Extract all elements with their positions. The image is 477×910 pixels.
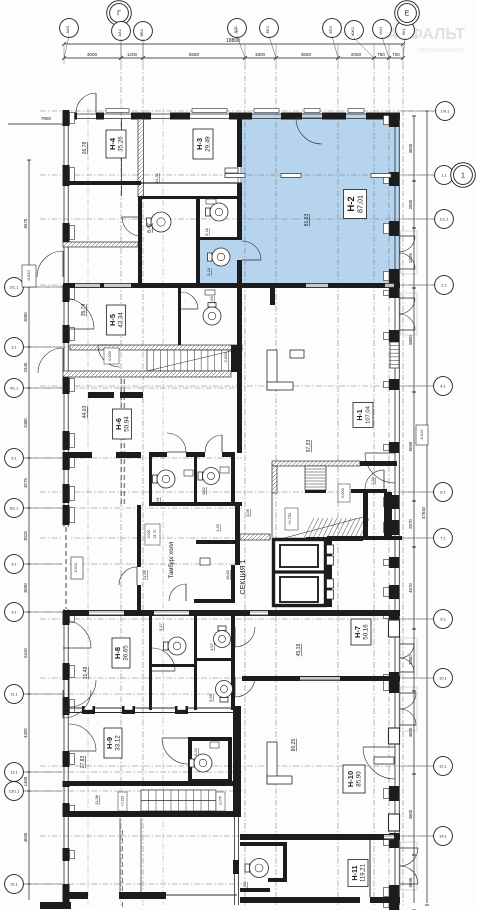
svg-text:2570: 2570: [408, 519, 413, 529]
svg-text:9.1: 9.1: [440, 617, 446, 622]
svg-text:3600: 3600: [408, 143, 413, 153]
svg-text:4.1: 4.1: [440, 384, 446, 389]
svg-text:35,74: 35,74: [81, 304, 87, 317]
svg-text:2940: 2940: [23, 362, 28, 372]
svg-text:КК1: КК1: [401, 27, 406, 35]
svg-text:5,18: 5,18: [205, 228, 209, 235]
svg-text:2600: 2600: [408, 199, 413, 209]
svg-text:0.000: 0.000: [341, 488, 345, 498]
svg-text:31,48: 31,48: [83, 667, 89, 680]
svg-text:44,03: 44,03: [82, 406, 88, 419]
svg-text:1: 1: [461, 172, 465, 179]
svg-text:2/1.1: 2/1.1: [10, 286, 18, 290]
svg-text:ЖЖ1: ЖЖ1: [350, 26, 355, 36]
svg-text:Н-11: Н-11: [350, 865, 359, 880]
svg-text:3080: 3080: [23, 312, 28, 322]
svg-text:4,82: 4,82: [201, 486, 206, 495]
svg-text:3480: 3480: [23, 418, 28, 428]
svg-text:3.1: 3.1: [11, 346, 16, 350]
svg-text:7,60: 7,60: [209, 295, 214, 304]
svg-text:8,47: 8,47: [147, 223, 153, 233]
svg-text:Н-4: Н-4: [108, 137, 117, 150]
svg-text:119,21: 119,21: [361, 863, 367, 882]
svg-text:3450: 3450: [408, 655, 413, 665]
svg-text:47540: 47540: [421, 506, 426, 519]
svg-text:5,17: 5,17: [158, 622, 163, 631]
svg-text:87,01: 87,01: [356, 195, 365, 213]
svg-text:6060: 6060: [408, 441, 413, 451]
svg-text:9.1: 9.1: [11, 611, 16, 615]
svg-text:0.000: 0.000: [147, 530, 151, 539]
svg-text:50,94: 50,94: [124, 416, 131, 432]
svg-text:2.1: 2.1: [441, 283, 447, 288]
svg-text:+0.225: +0.225: [121, 796, 125, 807]
svg-text:4300: 4300: [23, 728, 28, 738]
svg-text:85,90: 85,90: [356, 771, 363, 787]
svg-text:АА0: АА0: [65, 25, 70, 33]
svg-text:Н-7: Н-7: [353, 626, 362, 638]
svg-text:3650: 3650: [301, 52, 312, 57]
svg-text:700: 700: [392, 52, 400, 57]
svg-text:-0.010: -0.010: [74, 563, 78, 574]
svg-text:5800: 5800: [408, 335, 413, 345]
svg-text:4,09: 4,09: [245, 508, 250, 517]
svg-text:Е: Е: [405, 10, 410, 17]
svg-text:5550: 5550: [189, 52, 200, 57]
svg-text:Н-3: Н-3: [195, 138, 204, 150]
svg-text:11.1: 11.1: [10, 693, 17, 697]
svg-text:10.1: 10.1: [439, 676, 448, 681]
svg-text:1/1.1: 1/1.1: [440, 217, 450, 222]
svg-text:3075: 3075: [23, 478, 28, 488]
svg-text:26,78: 26,78: [82, 142, 88, 155]
svg-text:33,12: 33,12: [115, 735, 122, 751]
svg-text:6095: 6095: [408, 877, 413, 887]
svg-text:12.1: 12.1: [439, 764, 448, 769]
svg-text:4600: 4600: [408, 727, 413, 737]
svg-text:81,83: 81,83: [304, 214, 310, 227]
svg-text:13/1.1: 13/1.1: [9, 790, 20, 794]
svg-text:Г: Г: [117, 10, 121, 17]
svg-text:80,25: 80,25: [291, 739, 297, 752]
svg-text:4570: 4570: [408, 583, 413, 593]
svg-text:8.1: 8.1: [11, 563, 16, 567]
svg-text:СЕКЦИЯ 1: СЕКЦИЯ 1: [240, 559, 247, 594]
svg-text:0.000: 0.000: [108, 351, 112, 361]
svg-text:5410: 5410: [23, 648, 28, 658]
svg-text:27,83: 27,83: [80, 756, 86, 769]
svg-text:1200: 1200: [127, 52, 138, 57]
svg-text:750: 750: [377, 52, 385, 57]
svg-text:5,18: 5,18: [207, 268, 211, 275]
svg-text:107,04: 107,04: [365, 405, 371, 424]
svg-text:3090: 3090: [23, 583, 28, 593]
svg-text:24,31: 24,31: [154, 173, 159, 183]
svg-text:-2.600: -2.600: [223, 352, 228, 364]
svg-text:45,19: 45,19: [296, 644, 302, 657]
svg-text:7.1: 7.1: [440, 536, 446, 541]
svg-text:ИИ1: ИИ1: [378, 26, 383, 35]
svg-text:Н-10: Н-10: [346, 771, 355, 787]
svg-text:35,26: 35,26: [118, 136, 125, 152]
svg-text:4500: 4500: [408, 809, 413, 819]
svg-text:недвижимость: недвижимость: [418, 47, 465, 54]
svg-text:АА1: АА1: [117, 28, 122, 36]
svg-text:ДД1: ДД1: [233, 25, 238, 33]
svg-text:4/1.1: 4/1.1: [10, 387, 18, 391]
svg-text:4650: 4650: [23, 832, 28, 842]
svg-text:97,33: 97,33: [306, 440, 312, 453]
svg-text:5,65: 5,65: [208, 693, 213, 702]
svg-text:ЕЕ1: ЕЕ1: [265, 25, 270, 33]
svg-text:6.1: 6.1: [440, 490, 446, 495]
svg-text:5.1: 5.1: [11, 457, 16, 461]
svg-text:29,49: 29,49: [205, 136, 212, 152]
svg-text:21,65: 21,65: [142, 569, 147, 580]
svg-text:Тамбур/ холл: Тамбур/ холл: [169, 541, 175, 578]
svg-text:1.1: 1.1: [441, 173, 447, 178]
svg-text:Н-8: Н-8: [113, 647, 122, 659]
svg-text:-2.075: -2.075: [219, 796, 223, 806]
svg-text:Н-6: Н-6: [114, 418, 123, 430]
svg-text:6570: 6570: [23, 218, 28, 228]
svg-text:11,38: 11,38: [94, 794, 99, 804]
svg-text:6/1.1: 6/1.1: [10, 507, 18, 511]
svg-text:3000: 3000: [87, 52, 98, 57]
svg-text:Н-5: Н-5: [108, 314, 117, 326]
svg-text:4,26: 4,26: [216, 524, 220, 531]
svg-text:3025: 3025: [23, 531, 28, 541]
svg-text:2,34: 2,34: [371, 477, 375, 484]
svg-text:2050: 2050: [351, 52, 362, 57]
svg-text:5,22: 5,22: [193, 747, 198, 756]
svg-text:24,70: 24,70: [153, 530, 157, 539]
svg-text:1900: 1900: [255, 52, 266, 57]
svg-text:Н-9: Н-9: [105, 737, 114, 749]
svg-text:6,53: 6,53: [242, 881, 247, 890]
svg-text:ЕЕ2: ЕЕ2: [328, 25, 333, 33]
svg-text:50,16: 50,16: [363, 624, 370, 640]
svg-text:ВВ1: ВВ1: [139, 28, 144, 36]
svg-text:-0.010: -0.010: [420, 430, 424, 441]
svg-text:7950: 7950: [41, 116, 52, 121]
svg-text:4,97: 4,97: [209, 642, 214, 651]
svg-text:16,82: 16,82: [225, 569, 230, 580]
svg-text:36,65: 36,65: [123, 645, 130, 661]
svg-text:13.1: 13.1: [10, 771, 17, 775]
svg-text:6,91: 6,91: [155, 496, 160, 505]
svg-text:1/0.1: 1/0.1: [441, 109, 451, 114]
svg-text:+0.750: +0.750: [288, 513, 292, 525]
svg-text:-0.010: -0.010: [26, 270, 31, 282]
svg-text:14.1: 14.1: [439, 834, 448, 839]
svg-text:15.1: 15.1: [10, 883, 17, 887]
svg-text:1400: 1400: [23, 776, 28, 786]
svg-text:Н-1: Н-1: [357, 409, 364, 420]
svg-text:43,34: 43,34: [118, 312, 125, 328]
svg-text:3325: 3325: [408, 253, 413, 263]
